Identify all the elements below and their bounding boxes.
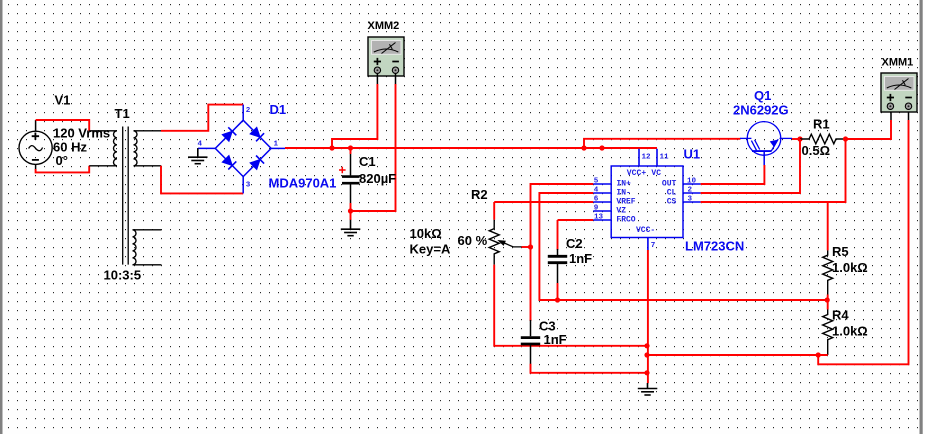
- svg-text:1.0kΩ: 1.0kΩ: [832, 260, 868, 275]
- svg-text:XMM1: XMM1: [882, 57, 914, 69]
- junction node C1 top: [348, 145, 353, 150]
- T1 primary winding: [89, 131, 117, 166]
- left window border: [0, 0, 3, 434]
- svg-text:VZ: VZ: [616, 207, 626, 216]
- IC U1 LM723CN: [593, 149, 700, 251]
- svg-text:0°: 0°: [56, 153, 68, 168]
- pin 3 stub: [683, 201, 701, 203]
- svg-text:OUT: OUT: [662, 180, 677, 189]
- wire U1 FRCO pin 13 to C2 top: [558, 219, 594, 221]
- svg-text:2: 2: [688, 186, 693, 194]
- wire R1 right to XMM1 plus terminal: [846, 120, 892, 139]
- junction node R1 right: [843, 136, 848, 141]
- svg-text:U1: U1: [684, 147, 701, 162]
- svg-text:VCC-: VCC-: [636, 226, 655, 235]
- pin 5 stub: [593, 183, 611, 185]
- transformer T1: [89, 127, 161, 265]
- wire ground riser to R4 bottom: [647, 354, 828, 356]
- svg-text:4: 4: [198, 140, 203, 148]
- svg-text:V1: V1: [55, 93, 71, 108]
- multimeter XMM1: [881, 73, 917, 112]
- wire C3 bottom to ground node: [531, 364, 648, 373]
- junction node R4 bottom / XMM1 minus: [816, 352, 821, 357]
- pin 13 stub: [593, 219, 611, 221]
- junction node on bus at x332: [329, 145, 334, 150]
- svg-text:10kΩ: 10kΩ: [410, 226, 442, 241]
- diode bottom-left (4 to 3): [222, 155, 237, 170]
- svg-text:VREF: VREF: [616, 198, 635, 207]
- svg-text:IN-: IN-: [616, 189, 630, 198]
- junction node C2 bottom on IN- line: [555, 297, 560, 302]
- T1 secondary winding 1: [134, 131, 138, 166]
- T1 core: [123, 127, 129, 265]
- svg-text:7: 7: [651, 242, 656, 250]
- svg-text:C1: C1: [359, 154, 376, 169]
- junction node wiper / IN+ riser: [528, 244, 533, 249]
- svg-text:2: 2: [246, 107, 251, 115]
- capacitor C1: [350, 148, 352, 154]
- svg-text:13: 13: [594, 213, 604, 221]
- wire Vin riser bus to Q1 collector: [584, 139, 741, 148]
- AC source V1: [19, 131, 52, 164]
- R2 wiper arrow: [501, 241, 522, 247]
- junction node ground to R4 wire: [644, 352, 649, 357]
- svg-text:CL: CL: [667, 189, 677, 198]
- junction node on bus at x602: [599, 145, 604, 150]
- main bus wire D1 pin1 to U1 pins 12/11: [285, 147, 657, 149]
- bridge rectifier D1: [198, 105, 285, 194]
- ground at D1 pin 4: [188, 148, 208, 163]
- T1 secondary winding 2: [133, 230, 137, 265]
- wire Q1 emitter to R1: [792, 138, 800, 140]
- svg-text:MDA970A1: MDA970A1: [269, 176, 337, 191]
- pin 6 stub: [593, 201, 611, 203]
- multimeter XMM2: [368, 37, 404, 76]
- svg-text:9: 9: [594, 204, 599, 212]
- wire XMM2 minus terminal to C1 bottom node: [395, 74, 397, 85]
- junction node R5/R4 divider: [825, 297, 830, 302]
- svg-text:1.0kΩ: 1.0kΩ: [832, 324, 868, 339]
- diamond body: [215, 120, 271, 176]
- svg-text:C2: C2: [566, 236, 583, 251]
- diode top-left (4 to 2): [222, 127, 237, 142]
- resistor R1: [800, 134, 846, 144]
- svg-text:10:3:5: 10:3:5: [104, 268, 142, 283]
- svg-text:CS: CS: [667, 198, 677, 207]
- svg-text:2N6292G: 2N6292G: [733, 103, 789, 118]
- pin 7 stub: [647, 238, 649, 251]
- svg-text:1nF: 1nF: [569, 251, 592, 266]
- svg-text:60 %: 60 %: [458, 233, 488, 248]
- wire R2 bottom to ground node: [494, 265, 647, 346]
- svg-text:820µF: 820µF: [359, 171, 396, 186]
- collector lead and diagonal: [740, 137, 751, 139]
- wire XMM2 plus terminal to bus: [376, 74, 378, 85]
- wire C1 bottom to ground: [350, 203, 352, 220]
- wire U1 CS pin 3 to R1 right node: [701, 139, 846, 202]
- wire T1 secondary bottom to D1 pin 3: [161, 166, 243, 194]
- wire T1 secondary top to D1 pin 2: [161, 105, 243, 131]
- junction node C1 bottom: [348, 208, 353, 213]
- base lead: [763, 151, 765, 166]
- svg-text:120 Vrms: 120 Vrms: [53, 126, 110, 141]
- svg-text:VCC+: VCC+: [627, 169, 647, 178]
- junction node Vin riser: [581, 145, 586, 150]
- svg-text:LM723CN: LM723CN: [685, 239, 744, 254]
- svg-text:R2: R2: [471, 187, 488, 202]
- svg-text:R5: R5: [832, 244, 849, 259]
- pin 12 stub: [638, 149, 640, 166]
- pin 2 stub: [683, 192, 701, 194]
- ground at U1 pin 7: [638, 383, 658, 395]
- resistor R4: [827, 300, 829, 310]
- svg-text:1nF: 1nF: [544, 332, 567, 347]
- transistor Q1: [740, 122, 792, 166]
- svg-text:R4: R4: [832, 308, 849, 323]
- wire U1 VCC- pin 7 to ground: [647, 250, 649, 383]
- wire U1 IN+ pin 5 to wiper and C3 top: [531, 184, 594, 320]
- pin 10 stub: [683, 183, 701, 185]
- svg-text:Q1: Q1: [754, 88, 771, 103]
- junction node Q1 emitter / R1 left: [797, 136, 802, 141]
- svg-text:6: 6: [594, 195, 599, 203]
- capacitor C2: [557, 220, 559, 250]
- svg-text:R1: R1: [813, 117, 830, 132]
- pin 9 stub: [593, 210, 611, 212]
- pin 3 lead: [242, 177, 244, 194]
- pin 2 lead: [242, 105, 244, 120]
- base bar: [752, 150, 772, 152]
- svg-text:XMM2: XMM2: [368, 20, 400, 32]
- junction node ground riser upper: [644, 343, 649, 348]
- wire XMM1 minus terminal to R4 bottom node: [818, 120, 908, 364]
- diode top-right (2 to 1): [249, 127, 264, 142]
- junction node ground riser lower: [644, 370, 649, 375]
- svg-text:1: 1: [274, 140, 279, 148]
- capacitor C3: [530, 319, 532, 321]
- svg-text:IN+: IN+: [616, 180, 631, 189]
- pin 4 stub: [593, 192, 611, 194]
- svg-text:12: 12: [642, 154, 652, 162]
- pin 4 lead: [198, 147, 215, 149]
- svg-text:3: 3: [688, 195, 693, 203]
- wire U1 OUT pin 10 to Q1 base: [701, 165, 765, 184]
- right window border: [920, 0, 923, 434]
- potentiometer R2: [493, 202, 495, 220]
- svg-text:VC: VC: [651, 169, 661, 178]
- emitter lead and diagonal with arrow: [771, 139, 778, 151]
- wire U1 CL pin 2 to Q1 emitter node: [701, 139, 800, 193]
- diode bottom-right (3 to 1): [249, 155, 264, 170]
- svg-text:D1: D1: [270, 102, 287, 117]
- svg-text:0.5Ω: 0.5Ω: [802, 143, 831, 158]
- svg-text:FRCO: FRCO: [616, 216, 635, 225]
- C1 polarity plus sign: [339, 167, 346, 174]
- svg-text:3: 3: [246, 182, 251, 190]
- svg-text:10: 10: [687, 177, 697, 185]
- wire V1 plus terminal to T1 primary top: [35, 120, 37, 131]
- resistor R5 top lead from CS line: [827, 202, 829, 250]
- pin 11 stub: [656, 149, 658, 166]
- svg-text:T1: T1: [115, 106, 130, 121]
- svg-text:4: 4: [594, 186, 599, 194]
- svg-text:Key=A: Key=A: [410, 242, 451, 257]
- svg-text:11: 11: [660, 154, 670, 162]
- pin 1 lead: [271, 147, 285, 149]
- wire U1 VREF pin 6 to R2 top: [494, 201, 593, 203]
- ground at C1: [341, 220, 361, 236]
- wire U1 IN- pin 4 to R5/R4 divider: [539, 193, 827, 300]
- wire V1 minus terminal to T1 primary bottom: [35, 164, 37, 169]
- svg-text:5: 5: [594, 177, 599, 185]
